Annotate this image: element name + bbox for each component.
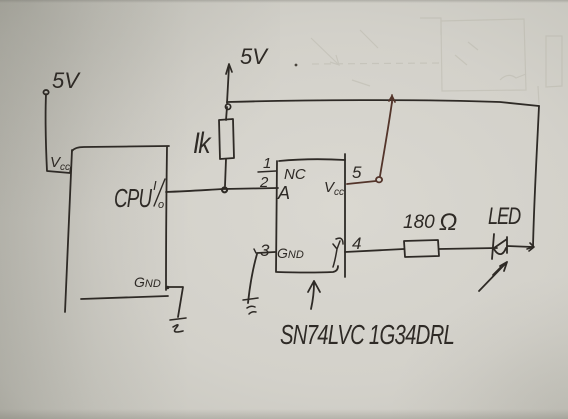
node at IC pin 5 <box>376 177 382 182</box>
power +5V (top) label <box>240 44 269 69</box>
wire: rail diagonal down to IC pin 5 (dark red pen) <box>347 95 395 184</box>
svg-text:Ω: Ω <box>439 209 457 236</box>
svg-text:A: A <box>277 183 290 203</box>
node junction (output / 1k) <box>222 187 227 192</box>
wire: CPU GND to ground <box>167 287 183 317</box>
annotation arrow (LED) <box>479 262 507 291</box>
svg-text:5: 5 <box>352 163 362 182</box>
svg-text:LED: LED <box>488 203 521 230</box>
ink dot <box>295 64 298 67</box>
label Vcc (CPU pin) <box>50 154 70 173</box>
label 180ohm <box>403 209 457 236</box>
label LED <box>488 203 521 230</box>
wire: top rail <box>227 100 539 106</box>
wire: top 5V down to rail <box>227 66 229 103</box>
label pin 5 <box>352 163 362 182</box>
svg-text:o: o <box>158 199 164 211</box>
squiggle at pin 4 (hand mark) <box>333 238 343 267</box>
wire: IC pin 3 to ground <box>248 252 275 303</box>
IC U1 SN74LVC1G34DRL body <box>279 159 345 161</box>
resistor R2 180ohm body <box>404 240 439 257</box>
label pin 4 <box>352 234 361 253</box>
label NC <box>284 166 306 183</box>
wire: left 5V down to CPU Vcc <box>46 94 71 173</box>
svg-text:5V: 5V <box>52 68 81 93</box>
CPU block <box>72 146 169 151</box>
corner tick <box>527 243 534 251</box>
label A <box>277 183 290 203</box>
label GND (IC) <box>277 245 304 261</box>
svg-text:5V: 5V <box>240 44 269 69</box>
wire: 1k down to output node <box>225 159 226 186</box>
svg-text:I: I <box>153 178 157 193</box>
svg-text:CPU: CPU <box>114 183 153 213</box>
node junction (5V / rail) loop <box>225 104 230 109</box>
wire: 180ohm to LED <box>439 248 497 249</box>
svg-text:SN74LVC 1G34DRL: SN74LVC 1G34DRL <box>280 320 454 351</box>
faint bleed-through marks (decorative) <box>311 18 562 104</box>
annotation arrow (IC) <box>308 281 320 309</box>
ground (IC) <box>243 298 258 314</box>
wire: LED to right rail corner <box>507 246 533 247</box>
svg-text:3: 3 <box>260 241 270 260</box>
wire: rail down to 1k <box>226 107 227 120</box>
svg-text:Ik: Ik <box>193 126 212 160</box>
svg-text:1: 1 <box>263 155 271 172</box>
label CPU I/O <box>114 178 164 213</box>
label SN74LVC1G34DRL <box>280 320 454 351</box>
ground (CPU) <box>170 318 186 332</box>
label GND (CPU pin) <box>134 274 161 290</box>
label pin 3 <box>260 241 270 260</box>
svg-text:2: 2 <box>259 174 269 191</box>
label pin 2 <box>259 174 269 191</box>
label 1k <box>193 126 212 160</box>
svg-text:180: 180 <box>403 212 435 233</box>
wire: IC pin 4 to 180ohm resistor <box>345 249 404 252</box>
label Vcc (IC) <box>324 179 344 198</box>
LED D1 symbol <box>492 234 494 259</box>
wire: CPU output to IC pin A <box>166 188 278 192</box>
power +5V (left) label <box>52 68 81 93</box>
resistor R1 1k body <box>219 119 234 159</box>
label pin 1 <box>263 155 271 172</box>
wire: right vertical rail <box>533 106 539 247</box>
svg-text:4: 4 <box>352 234 361 253</box>
svg-text:NC: NC <box>284 166 306 183</box>
power +5V (left) terminal loop <box>43 90 48 95</box>
power +5V (top) arrowhead <box>226 64 232 74</box>
